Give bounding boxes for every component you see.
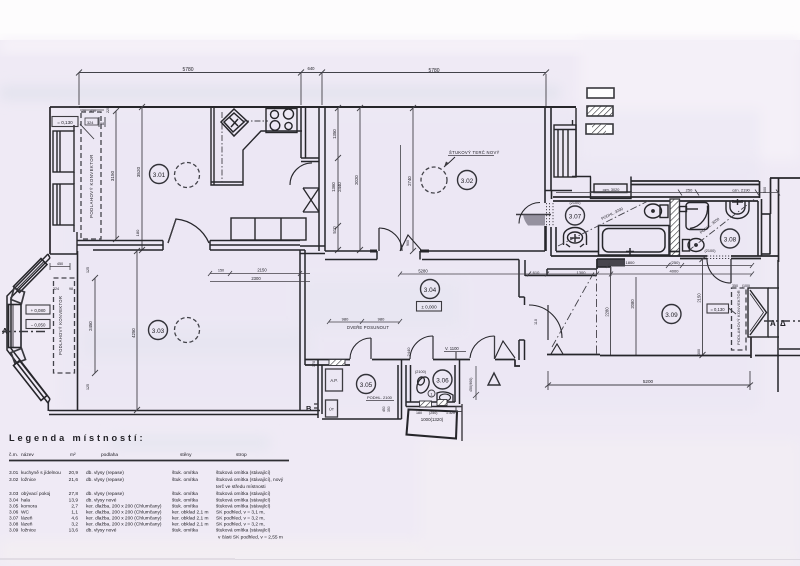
konvektor dashed rect kitchen: [81, 112, 101, 239]
legend rows: [9, 470, 284, 541]
svg-text:324: 324: [87, 121, 93, 125]
3.07 west wall: [551, 227, 556, 256]
bath dim line: [556, 190, 780, 196]
corner basin 3.06: [437, 392, 453, 402]
svg-text:lázeň: lázeň: [21, 522, 33, 528]
bottom dim line 2150/2300: [208, 271, 310, 282]
svg-text:2150: 2150: [697, 293, 702, 303]
3.02 dim 2020: [357, 105, 363, 253]
small dims 324 98: [85, 118, 98, 125]
svg-text:db. vlysy nové: db. vlysy nové: [86, 498, 117, 504]
svg-text:3.06: 3.06: [9, 510, 19, 516]
strip door arc: [290, 163, 312, 185]
hatched floor bits 3.06: [420, 401, 432, 407]
svg-text:ker. obklad 2,1 m: ker. obklad 2,1 m: [172, 522, 209, 528]
door to 3.02 leaf+arc: [378, 228, 380, 251]
legend swatch hatched middle: [586, 124, 613, 134]
svg-text:3.09: 3.09: [665, 312, 678, 319]
svg-text:SK podhled, v = 3,2 m,: SK podhled, v = 3,2 m,: [216, 522, 265, 528]
WC fixture 3.06: [414, 375, 431, 395]
dim 4250: [134, 248, 140, 413]
svg-text:98: 98: [69, 287, 73, 291]
svg-text:3.09: 3.09: [9, 528, 19, 534]
konvektor dashed rect 3.09: [732, 288, 747, 350]
svg-text:B: B: [306, 404, 312, 413]
svg-text:3.08: 3.08: [724, 237, 737, 244]
svg-text:štuková omítka (stávající): štuková omítka (stávající): [216, 470, 271, 476]
room label 3.09: [662, 305, 681, 324]
hatched partition 3.07/3.08: [670, 199, 680, 256]
svg-text:150: 150: [218, 269, 224, 273]
svg-text:170: 170: [312, 361, 316, 367]
3.02 dim 1350: [335, 105, 341, 253]
east window 3.09: [748, 288, 779, 337]
ceiling rosette dashed circle 3.02: [421, 167, 447, 193]
svg-text:č.m.: č.m.: [9, 452, 18, 458]
vestibule triangle door leaf: [551, 344, 563, 354]
svg-text:300: 300: [697, 349, 701, 355]
stove 4 rings: [266, 109, 297, 133]
svg-text:štuková omítka (stávající): štuková omítka (stávající): [216, 528, 271, 534]
kitchen south cabinets: [231, 218, 306, 240]
svg-text:(250): (250): [670, 260, 680, 265]
north wall kitchen+3.02: [79, 106, 576, 108]
room label 3.08: [721, 229, 740, 248]
svg-text:kuchyně s jídelnou: kuchyně s jídelnou: [21, 470, 61, 476]
A.P. box: [326, 369, 343, 391]
shower 3.08: [680, 203, 709, 230]
svg-text:(250): (250): [429, 411, 437, 415]
bath block north wall: [553, 178, 800, 262]
kitchen counter L: [211, 108, 302, 185]
svg-text:ker. dlažba, 200 x 200 (Chlumč: ker. dlažba, 200 x 200 (Chlumčany): [86, 522, 162, 528]
svg-text:900: 900: [406, 240, 410, 246]
svg-text:3.07: 3.07: [569, 214, 582, 221]
svg-text:+ 0,080: + 0,080: [31, 308, 46, 313]
balcony below 3.06: [407, 410, 458, 439]
counter centre dash-dot: [221, 112, 223, 182]
svg-text:2280: 2280: [605, 307, 610, 317]
dim 5200: [545, 371, 753, 390]
leader line from box: [80, 124, 94, 139]
svg-text:324: 324: [53, 287, 59, 291]
bathtub 3.07: [599, 226, 670, 256]
svg-text:1360: 1360: [331, 182, 336, 192]
ceiling rosette dashed circle 3.01: [175, 163, 200, 188]
3.09 south wall: [547, 337, 779, 358]
svg-text:3.03: 3.03: [152, 328, 165, 335]
WC 3.07: [645, 204, 669, 218]
box -0,050: [26, 320, 50, 329]
bay window sash left face: [9, 305, 22, 348]
svg-text:strop: strop: [236, 452, 247, 458]
svg-text:Legenda místností:: Legenda místností:: [9, 433, 145, 443]
number 1 circle: [428, 390, 435, 397]
svg-text:2440: 2440: [337, 182, 342, 192]
arrow to dashed circle: [444, 157, 455, 167]
svg-text:DVEŘE POSUNOUT: DVEŘE POSUNOUT: [347, 325, 389, 330]
box +0,080: [26, 305, 50, 314]
svg-text:db. vlysy (repase): db. vlysy (repase): [86, 477, 124, 483]
svg-text:1,1: 1,1: [71, 510, 78, 516]
room label 3.01: [150, 165, 169, 184]
kitchen west windows: [50, 125, 77, 254]
room label 3.07: [566, 206, 585, 225]
dim 980 980 dvere posunout: [327, 319, 402, 324]
bay to south wall connector: [47, 402, 49, 411]
svg-text:ozn. 3020: ozn. 3020: [603, 188, 620, 192]
svg-text:PODHL. 2100: PODHL. 2100: [367, 395, 393, 400]
svg-text:2740: 2740: [407, 176, 412, 186]
svg-text:980: 980: [378, 317, 385, 322]
svg-text:4000: 4000: [670, 269, 680, 274]
long dim line 5280/610/1300/4000: [398, 272, 754, 277]
legend header: [9, 452, 247, 458]
svg-text:= 0,130: = 0,130: [57, 120, 73, 125]
svg-text:hala: hala: [21, 498, 30, 504]
room label 3.03: [149, 321, 168, 340]
3.06 WC room walls: [406, 360, 462, 407]
svg-text:1.320: 1.320: [446, 411, 455, 415]
svg-text:13,6: 13,6: [69, 528, 79, 534]
bay corner block bottom: [11, 349, 26, 364]
corner sink (diamond): [221, 109, 248, 136]
hall south wall: [305, 360, 520, 367]
triangle marker hall: [488, 373, 500, 385]
svg-text:4,6: 4,6: [71, 516, 78, 522]
svg-text:4250: 4250: [131, 328, 136, 338]
dotted door opening to 3.09: [707, 256, 731, 259]
svg-text:3.06: 3.06: [436, 378, 449, 385]
party wall right 3.09: [778, 260, 800, 392]
svg-text:stěny: stěny: [180, 452, 192, 458]
door edge line 3.02: [400, 145, 402, 251]
svg-text:2150: 2150: [257, 268, 267, 273]
svg-text:WC: WC: [21, 510, 30, 516]
bay window outer: [7, 254, 50, 403]
svg-text:2020: 2020: [354, 175, 359, 185]
svg-text:PODLAHOVÝ KONVEKTOR: PODLAHOVÝ KONVEKTOR: [736, 290, 741, 345]
svg-text:1350: 1350: [332, 129, 337, 139]
svg-text:V. 1100: V. 1100: [445, 346, 459, 351]
dim 2150 right: [700, 256, 706, 358]
svg-text:obývací pokoj: obývací pokoj: [21, 491, 50, 497]
svg-text:1800: 1800: [626, 260, 636, 265]
svg-text:3.05: 3.05: [9, 504, 19, 510]
3.05 walls: [318, 360, 402, 420]
svg-text:lázeň: lázeň: [21, 516, 33, 522]
svg-text:640: 640: [308, 66, 316, 71]
konvektor dashed rect 3.03: [54, 278, 75, 373]
podhl 3200 dashed diagonal 3.08: [688, 200, 754, 252]
bay window sash top face: [14, 259, 48, 293]
svg-text:ker. dlažba, 200 x 200 (Chlumč: ker. dlažba, 200 x 200 (Chlumčany): [86, 504, 162, 510]
svg-text:komora: komora: [21, 504, 37, 510]
top dimension chain 5780/640/5780: [76, 70, 549, 108]
washbasin 3.07: [564, 228, 587, 248]
box 0,000: [417, 302, 442, 312]
vestibule north wall: [525, 259, 597, 276]
svg-text:350: 350: [387, 406, 391, 412]
svg-text:štuková omítka (stávající), no: štuková omítka (stávající), nový: [216, 477, 284, 483]
svg-text:ker. dlažba, 200 x 200 (Chlumč: ker. dlažba, 200 x 200 (Chlumčany): [86, 516, 162, 522]
svg-text:5280: 5280: [418, 269, 428, 274]
OT box: [326, 400, 338, 417]
svg-text:3.04: 3.04: [424, 287, 437, 294]
svg-text:110: 110: [534, 319, 538, 325]
entry landing wall: [572, 177, 631, 193]
box = 0,130 kitchen: [52, 117, 78, 127]
pantry strip east wall / 3.02 west wall: [319, 107, 325, 251]
svg-text:3.02: 3.02: [461, 178, 474, 185]
dim 2450: [92, 275, 98, 376]
svg-text:− 0,050: − 0,050: [31, 323, 46, 328]
svg-text:štuk. omítka: štuk. omítka: [172, 498, 198, 504]
svg-text:štuková omítka (stávající): štuková omítka (stávající): [216, 504, 271, 510]
diagonal axis 3.09: [552, 267, 597, 347]
svg-text:(2100): (2100): [415, 370, 427, 374]
svg-text:1000(1320): 1000(1320): [421, 417, 444, 422]
svg-text:220: 220: [106, 107, 110, 113]
scan shadow line bottom: [0, 558, 235, 560]
washbasin 3.08: [726, 199, 749, 219]
legend header rule: [9, 460, 289, 462]
svg-text:5780: 5780: [182, 67, 193, 73]
svg-text:SK podhled, v = 3,1 m,: SK podhled, v = 3,1 m,: [216, 510, 265, 516]
svg-text:125: 125: [86, 384, 90, 390]
svg-text:štuk. omítka: štuk. omítka: [172, 504, 198, 510]
svg-text:450: 450: [382, 406, 386, 412]
svg-text:ložnice: ložnice: [21, 477, 36, 483]
3.02 dim 2740: [410, 105, 416, 254]
svg-text:ker. obklad 2,1 m: ker. obklad 2,1 m: [172, 516, 209, 522]
door leaf triangle: [400, 235, 422, 251]
kitchen west outer wall: [50, 107, 79, 254]
podhl 3200 dashed diagonal 3.07: [558, 201, 648, 246]
room label 3.05: [357, 375, 376, 394]
svg-text:název: název: [21, 452, 34, 458]
3.03 south wall: [49, 411, 402, 420]
svg-text:510: 510: [332, 226, 337, 234]
WC 3.08: [683, 239, 705, 252]
3.02 south wall: [325, 251, 545, 260]
bay dims 450 125: [50, 263, 70, 270]
svg-text:500: 500: [763, 187, 767, 193]
kitchen south wall with door opening: [77, 241, 305, 251]
dim 2280: [610, 268, 612, 355]
chimney block: [554, 108, 576, 177]
3.02 east wall: [545, 107, 572, 251]
door pair leaf+arc right: [494, 336, 496, 359]
dotted jambs 3.07 door: [547, 203, 554, 227]
door arc into 3.09: [707, 259, 731, 283]
svg-text:ozn. 2190: ozn. 2190: [732, 188, 750, 193]
svg-text:5780: 5780: [428, 68, 439, 74]
svg-text:štuková omítka (stávající): štuková omítka (stávající): [216, 498, 271, 504]
ceiling rosette dashed circle 3.03: [175, 318, 200, 343]
svg-text:terč ve středu místnosti: terč ve středu místnosti: [216, 484, 266, 490]
3.09 dim line 1800 250: [606, 263, 754, 276]
svg-text:125: 125: [86, 267, 90, 273]
svg-text:3520: 3520: [136, 166, 141, 177]
door to 3.09 vestibule leaf+arc: [547, 305, 549, 340]
svg-text:PODLAHOVÝ KONVEKTOR: PODLAHOVÝ KONVEKTOR: [58, 296, 63, 355]
kitchen door leaf+arc: [168, 219, 209, 243]
bath south wall: [551, 252, 779, 259]
svg-text:podlaha: podlaha: [101, 452, 118, 458]
dim 3520 vertical kitchen: [139, 104, 145, 253]
door 3.05 leaf+arc: [370, 338, 372, 359]
svg-text:3150: 3150: [110, 170, 115, 181]
svg-text:3.01: 3.01: [153, 172, 166, 179]
svg-text:SK podhled, v = 3,2 m,: SK podhled, v = 3,2 m,: [216, 516, 265, 522]
room label 3.04: [421, 280, 440, 299]
hall east wall: [519, 260, 525, 361]
dim 3150 vertical: [113, 108, 119, 242]
svg-text:± 0,000: ± 0,000: [421, 305, 437, 310]
svg-text:2300: 2300: [251, 276, 261, 281]
svg-text:ker. obklad 2,1 m: ker. obklad 2,1 m: [172, 510, 209, 516]
svg-text:štuk. omítka: štuk. omítka: [172, 528, 198, 534]
room label 3.02: [458, 171, 477, 190]
svg-text:3.05: 3.05: [360, 382, 373, 389]
bay window sash bottom face: [14, 361, 48, 401]
svg-text:20,9: 20,9: [69, 470, 79, 476]
svg-text:= 0,130: = 0,130: [710, 307, 725, 312]
strip south closure: [300, 246, 325, 254]
svg-text:13,9: 13,9: [69, 498, 79, 504]
pantry strip west wall: [301, 107, 319, 162]
svg-text:3.08: 3.08: [9, 522, 19, 528]
entry steps: [591, 177, 632, 199]
3.08 east wall: [758, 199, 771, 256]
legend swatch plain: [587, 88, 614, 98]
svg-text:v části SK podhled, v = 2,55 m: v části SK podhled, v = 2,55 m: [218, 535, 283, 541]
svg-text:2080: 2080: [630, 299, 635, 309]
svg-text:450(900): 450(900): [469, 378, 473, 392]
svg-text:štuk. omítka: štuk. omítka: [172, 470, 198, 476]
3.03 east wall (shared with hall): [300, 250, 305, 410]
svg-text:2450: 2450: [88, 321, 93, 331]
dim 2080: [635, 277, 637, 355]
box = 0,130 right: [707, 304, 729, 313]
svg-text:5200: 5200: [643, 379, 654, 384]
svg-text:ŠTUKOVÝ TERČ NOVÝ: ŠTUKOVÝ TERČ NOVÝ: [449, 150, 500, 155]
svg-text:3.07: 3.07: [9, 516, 19, 522]
svg-text:(2100): (2100): [705, 249, 717, 253]
svg-text:450: 450: [57, 262, 63, 266]
svg-text:980: 980: [342, 317, 349, 322]
white scan band top: [0, 0, 800, 40]
svg-text:3,2: 3,2: [71, 522, 78, 528]
bay corner block top: [11, 288, 25, 304]
legend swatch hatched full: [587, 106, 613, 116]
svg-text:štuková omítka (stávající): štuková omítka (stávající): [216, 491, 271, 497]
svg-text:180: 180: [416, 411, 422, 415]
room label 3.06: [433, 370, 452, 389]
svg-text:A.P.: A.P.: [330, 378, 337, 383]
door 3.06 leaf+arc: [432, 336, 434, 359]
hatched pier hall wall: [329, 360, 345, 366]
svg-text:štuk. omítka: štuk. omítka: [172, 491, 198, 497]
svg-text:db. vlysy (repase): db. vlysy (repase): [86, 470, 124, 476]
3.03 west wall: [77, 251, 79, 410]
svg-text:250: 250: [686, 188, 693, 193]
strip double door zigzag: [303, 188, 319, 212]
svg-text:ker. dlažba, 200 x 200 (Chlumč: ker. dlažba, 200 x 200 (Chlumčany): [86, 510, 162, 516]
svg-text:PODLAHOVÝ KONVEKTOR: PODLAHOVÝ KONVEKTOR: [89, 154, 94, 218]
svg-text:ložnice: ložnice: [21, 528, 36, 534]
svg-text:3.04: 3.04: [9, 498, 19, 504]
svg-text:(2100): (2100): [570, 201, 582, 205]
svg-text:21,6: 21,6: [69, 477, 79, 483]
svg-text:3.02: 3.02: [9, 477, 19, 483]
svg-text:3.01: 3.01: [9, 470, 19, 476]
svg-text:180: 180: [135, 229, 140, 236]
svg-text:27,8: 27,8: [69, 491, 79, 497]
svg-text:db. vlysy (repase): db. vlysy (repase): [86, 491, 124, 497]
svg-text:db. vlysy nové: db. vlysy nové: [86, 528, 117, 534]
3.09 north wall: [597, 260, 625, 267]
svg-text:štuk. omítka: štuk. omítka: [172, 477, 198, 483]
svg-text:2,7: 2,7: [71, 504, 78, 510]
svg-text:m²: m²: [70, 452, 76, 458]
svg-text:ÚT: ÚT: [329, 407, 335, 412]
door 3.02-3.07 leaf+arc: [516, 214, 551, 216]
svg-text:3.03: 3.03: [9, 491, 19, 497]
